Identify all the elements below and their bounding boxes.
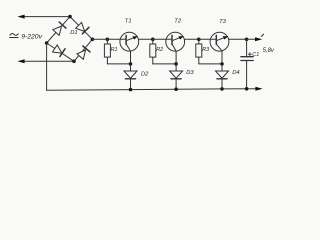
- wire: plus rail, T3 to output node: [229, 38, 247, 40]
- wire: plus rail, bridge to R1 tap: [92, 38, 107, 40]
- node: D4 ground junction: [220, 87, 224, 91]
- resistor R3: [196, 39, 202, 64]
- transistor T2: [153, 32, 185, 64]
- svg-text:R3: R3: [202, 47, 209, 53]
- bridge D1: edge wire bottom-right: [74, 39, 92, 61]
- input terminal arrow (bottom): [17, 59, 24, 63]
- node: D2 ground junction: [129, 88, 133, 92]
- capacitor C1: [241, 39, 253, 89]
- svg-text:T2: T2: [174, 19, 182, 25]
- wire: ground rail: [47, 89, 257, 91]
- svg-text:9-220v: 9-220v: [21, 34, 42, 41]
- node: output plus tap: [245, 38, 249, 42]
- svg-text:T3: T3: [219, 19, 227, 25]
- transistor T3: [199, 32, 229, 64]
- svg-text:5,8v: 5,8v: [263, 48, 275, 54]
- bridge D1: edge wire left-top: [47, 17, 70, 43]
- output terminal arrow (bottom right): [255, 87, 262, 91]
- wire: bridge left node down to ground rail: [46, 43, 48, 90]
- wire: output plus lead: [247, 38, 256, 40]
- svg-text:R2: R2: [156, 47, 163, 53]
- svg-text:D2: D2: [141, 71, 149, 77]
- label: C1 plus sign: [248, 53, 251, 56]
- node: bridge right (plus): [91, 38, 95, 42]
- node: bridge left (minus): [45, 41, 49, 45]
- svg-text:C1: C1: [252, 52, 259, 58]
- resistor R1: [104, 39, 110, 64]
- bridge diode D1d (bottom to right): [77, 46, 90, 59]
- bridge D1: edge wire left-bottom: [47, 43, 74, 61]
- bridge diode D1c (left to bottom): [53, 45, 66, 57]
- wire: plus rail, T1 to R2 tap: [138, 38, 152, 40]
- wire: AC input bottom: [24, 60, 75, 62]
- node: D3 ground junction: [174, 87, 178, 91]
- node: C1 ground junction: [245, 87, 249, 91]
- diode D3: [170, 64, 183, 89]
- output terminal arrow (top right): [255, 37, 262, 41]
- node: R1 tap: [106, 38, 110, 42]
- label: output polarity tick: [261, 34, 263, 36]
- node: R3 tap: [197, 38, 201, 42]
- wire: AC input top: [24, 16, 71, 18]
- resistor R2: [150, 39, 156, 64]
- node: bridge bottom (AC): [72, 60, 76, 64]
- diode D4: [216, 64, 229, 89]
- bridge diode D1b (top to right): [76, 22, 89, 33]
- AC source symbol: [10, 34, 19, 38]
- node B1: [129, 62, 133, 66]
- node: R2 tap: [151, 38, 155, 42]
- diode D2: [124, 64, 137, 90]
- svg-text:T1: T1: [125, 19, 132, 25]
- svg-text:D1: D1: [70, 30, 77, 36]
- svg-text:D3: D3: [186, 70, 194, 76]
- wire: R2 bottom to node B2: [153, 63, 176, 65]
- wire: R3 bottom to node B3: [199, 63, 222, 65]
- wire: R1 bottom to node B1: [107, 63, 130, 65]
- node B3: [220, 62, 224, 66]
- node B2: [174, 62, 178, 66]
- wire: plus rail, T2 to R3 tap: [184, 38, 199, 40]
- node: bridge top (AC): [68, 15, 72, 19]
- input terminal arrow (top): [17, 15, 24, 19]
- bridge diode D1a (left to top): [53, 22, 66, 35]
- svg-text:R1: R1: [111, 47, 118, 53]
- bridge D1: edge wire top-right: [70, 17, 92, 40]
- transistor T1: [107, 32, 138, 64]
- svg-text:D4: D4: [232, 70, 239, 76]
